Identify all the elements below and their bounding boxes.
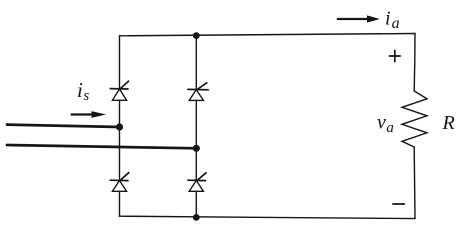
label plus sign [390,50,401,61]
node top junction [193,32,200,39]
wire middle leg lower segment [195,191,197,217]
thyristor T4 (lower middle) [188,173,206,192]
wire bottom (bottom rail) [120,216,416,218]
wire left leg middle segment [119,100,121,180]
svg-text:ia: ia [385,8,400,33]
wire input upper (thick source lead) [7,125,120,127]
thyristor T3 (lower left) [110,173,129,192]
wire left leg lower segment [119,191,121,216]
wire middle leg center segment [195,100,197,180]
arrow i_s [72,111,107,118]
wire top (top rail from left leg to right branch) [120,34,416,36]
node bottom junction [193,214,200,221]
wire middle leg upper segment [195,36,197,90]
label minus sign [393,203,404,205]
wire right branch lower segment [413,147,416,219]
node lower input junction [193,145,200,152]
wire input lower (thick source lead) [7,145,196,148]
resistor R (zigzag) [402,91,427,147]
thyristor T2 (upper middle) [188,83,208,101]
node upper input junction [116,123,123,130]
thyristor T1 (upper left) [110,81,128,100]
svg-text:va: va [377,112,394,137]
arrow i_a [338,15,380,22]
wire left leg upper segment [119,36,121,90]
svg-text:R: R [442,112,455,134]
svg-text:is: is [77,78,89,104]
wire right branch upper segment [413,34,416,92]
